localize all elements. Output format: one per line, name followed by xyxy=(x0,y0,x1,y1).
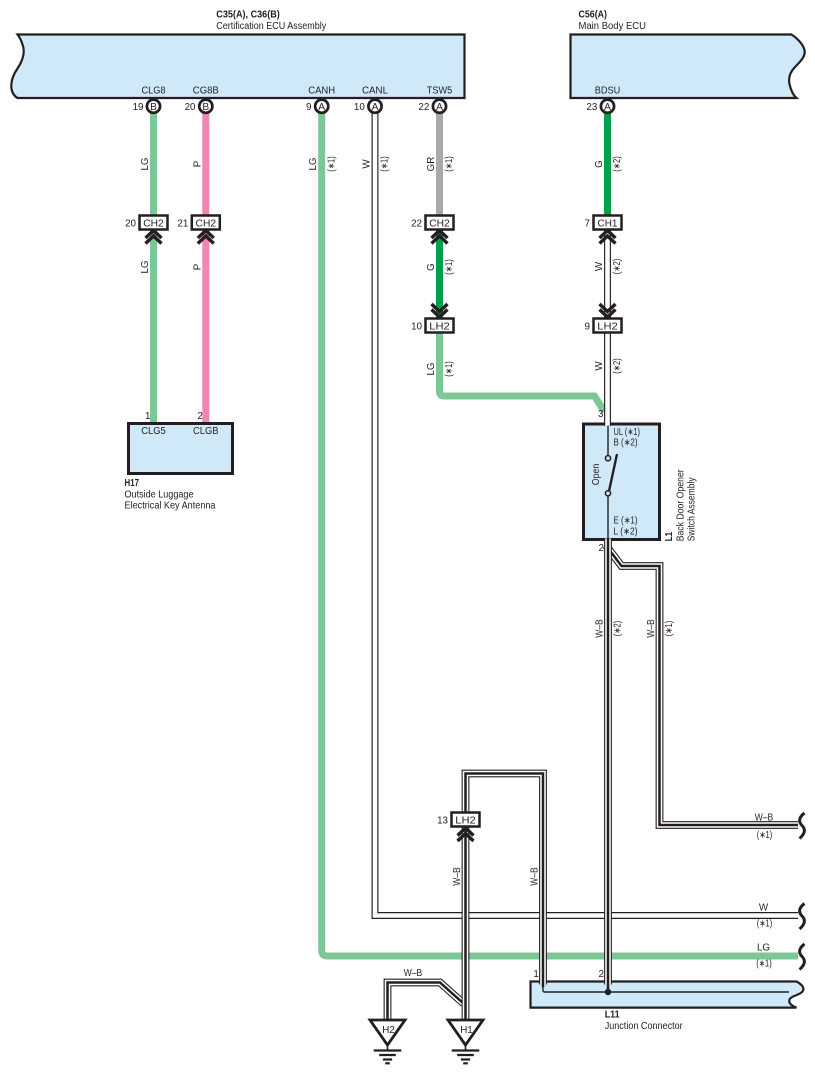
svg-text:CLGB: CLGB xyxy=(193,426,219,437)
break symbol W-B right edge xyxy=(800,813,805,839)
svg-text:(∗1): (∗1) xyxy=(444,156,455,172)
svg-text:(∗2): (∗2) xyxy=(612,358,623,374)
connector LH2 10 xyxy=(411,304,453,333)
svg-text:1: 1 xyxy=(145,411,150,422)
svg-text:9: 9 xyxy=(585,322,590,333)
svg-text:20: 20 xyxy=(185,102,196,113)
svg-text:LH2: LH2 xyxy=(429,321,450,332)
svg-text:(∗1): (∗1) xyxy=(756,959,772,970)
svg-text:13: 13 xyxy=(437,816,448,827)
svg-text:20: 20 xyxy=(125,219,136,230)
connector CH1 7 xyxy=(585,216,622,244)
ground H1 triangle xyxy=(448,1020,483,1063)
pin 23 circle A xyxy=(586,100,614,113)
wire W CANL (pin 10 to right edge) xyxy=(375,111,798,916)
break symbol W right edge xyxy=(800,904,805,930)
svg-text:A: A xyxy=(436,102,443,113)
svg-text:P: P xyxy=(192,263,203,270)
svg-text:UL (∗1): UL (∗1) xyxy=(614,427,641,438)
svg-text:(∗1): (∗1) xyxy=(380,156,391,172)
pin 10 circle A xyxy=(354,100,382,113)
svg-text:10: 10 xyxy=(354,102,365,113)
junction dot L11 pin 2 xyxy=(605,989,611,995)
svg-text:Main Body ECU: Main Body ECU xyxy=(579,21,647,32)
svg-text:CH2: CH2 xyxy=(196,218,217,229)
svg-text:W–B: W–B xyxy=(595,619,606,638)
ground H2 triangle xyxy=(370,1020,405,1063)
svg-text:W–B: W–B xyxy=(646,619,657,638)
svg-text:Back Door Opener: Back Door Opener xyxy=(676,469,687,542)
svg-text:3: 3 xyxy=(598,409,604,420)
svg-text:L11: L11 xyxy=(605,1010,621,1021)
pin 22 circle A xyxy=(418,100,446,113)
svg-text:LG: LG xyxy=(757,943,770,954)
connector LH2 13 xyxy=(437,813,479,842)
svg-text:L (∗2): L (∗2) xyxy=(614,527,638,538)
svg-text:H2: H2 xyxy=(382,1025,395,1036)
svg-text:LG: LG xyxy=(140,260,151,273)
svg-text:TSW5: TSW5 xyxy=(427,86,453,97)
wire inside L11 junction connector xyxy=(543,985,789,992)
wire lead inside L1 (switch to pin 2) xyxy=(607,496,609,539)
svg-text:Switch Assembly: Switch Assembly xyxy=(686,477,697,541)
connector CH2 21 xyxy=(177,216,219,244)
wire P CG8B (pin 20 to H17 pin 2) xyxy=(202,111,209,424)
wire W-B (H2 ground up and over to H1 wire) xyxy=(388,983,464,1021)
svg-text:1: 1 xyxy=(533,969,538,980)
svg-text:CANL: CANL xyxy=(362,86,389,97)
svg-text:(∗1): (∗1) xyxy=(757,830,773,841)
pin 20 circle B xyxy=(185,100,213,113)
ECU C56(A) bar xyxy=(571,35,805,99)
svg-text:LG: LG xyxy=(308,157,319,170)
svg-text:B: B xyxy=(202,102,209,113)
svg-text:B: B xyxy=(150,102,157,113)
svg-text:Junction Connector: Junction Connector xyxy=(605,1021,684,1032)
svg-text:W–B: W–B xyxy=(530,867,541,886)
svg-text:Outside Luggage: Outside Luggage xyxy=(125,489,195,500)
wire G (CH2 22 to LH2 10) xyxy=(436,227,443,320)
svg-text:CH1: CH1 xyxy=(598,218,618,229)
svg-text:(∗2): (∗2) xyxy=(612,156,623,172)
svg-text:21: 21 xyxy=(177,219,188,230)
svg-text:9: 9 xyxy=(306,102,311,113)
svg-text:(∗1): (∗1) xyxy=(444,361,455,377)
svg-text:LH2: LH2 xyxy=(455,815,476,826)
connector CH2 20 xyxy=(125,216,167,244)
L1 Back Door Opener Switch Assembly box xyxy=(584,424,660,540)
pin 9 circle A xyxy=(306,100,328,113)
svg-text:2: 2 xyxy=(197,411,202,422)
svg-text:L1: L1 xyxy=(664,531,675,541)
svg-text:BDSU: BDSU xyxy=(595,86,621,97)
svg-text:H17: H17 xyxy=(125,478,140,489)
svg-text:W: W xyxy=(362,159,373,169)
svg-text:10: 10 xyxy=(411,322,422,333)
svg-text:Certification ECU Assembly: Certification ECU Assembly xyxy=(216,21,326,32)
wire W-B (L1 pin 2 down to L11 pin 2) xyxy=(604,539,612,991)
wire W (CH1 7 to LH2 9) xyxy=(604,227,611,320)
svg-text:Electrical Key Antenna: Electrical Key Antenna xyxy=(125,500,217,511)
svg-text:W–B: W–B xyxy=(452,867,463,886)
wire G BDSU (pin 23 to CH1) xyxy=(604,111,611,218)
svg-text:LG: LG xyxy=(426,362,437,375)
svg-text:(∗1): (∗1) xyxy=(326,156,337,172)
svg-text:E (∗1): E (∗1) xyxy=(614,516,638,527)
svg-text:W: W xyxy=(594,261,605,271)
svg-text:22: 22 xyxy=(411,219,422,230)
svg-text:B (∗2): B (∗2) xyxy=(614,438,638,449)
svg-text:W: W xyxy=(594,361,605,371)
svg-text:(∗1): (∗1) xyxy=(757,919,773,930)
wire LG (LH2 10 to L1 pin 3) xyxy=(440,330,605,412)
svg-text:C35(A), C36(B): C35(A), C36(B) xyxy=(216,10,279,21)
svg-text:W–B: W–B xyxy=(755,813,774,824)
svg-text:A: A xyxy=(318,102,325,113)
connector CH2 22 xyxy=(411,216,453,244)
switch contact top xyxy=(605,456,610,461)
break symbol LG right edge xyxy=(800,944,805,970)
wire lead inside L1 (pin 3 to switch) xyxy=(607,426,609,456)
svg-text:(∗1): (∗1) xyxy=(444,259,455,275)
svg-text:CANH: CANH xyxy=(308,86,335,97)
svg-text:C56(A): C56(A) xyxy=(579,10,608,21)
svg-text:CLG5: CLG5 xyxy=(141,426,166,437)
svg-text:CG8B: CG8B xyxy=(193,86,219,97)
svg-text:CH2: CH2 xyxy=(143,218,164,229)
wire GR TSW5 (pin 22 to CH2) xyxy=(436,111,443,218)
connector LH2 9 xyxy=(585,304,622,333)
svg-text:LG: LG xyxy=(140,157,151,170)
svg-text:(∗2): (∗2) xyxy=(612,259,623,275)
svg-text:LH2: LH2 xyxy=(597,321,618,332)
svg-text:(∗2): (∗2) xyxy=(613,621,624,637)
svg-text:A: A xyxy=(372,102,379,113)
wire W (LH2 9 to L1 pin 3) xyxy=(604,330,611,426)
switch contact bottom xyxy=(605,491,610,496)
svg-text:GR: GR xyxy=(426,157,437,172)
svg-text:P: P xyxy=(192,160,203,167)
svg-text:Open: Open xyxy=(591,464,602,486)
svg-text:G: G xyxy=(594,160,605,168)
H17 Outside Luggage Electrical Key Antenna box xyxy=(129,424,233,474)
wire W-B branch (L1 pin 2 diagonal to right edge, *1) xyxy=(606,546,798,826)
wire W-B (H1 ground up through LH2 13, over and down to L11 pin 1) xyxy=(466,774,544,1021)
wire LG CANH (pin 9 to right edge) xyxy=(322,111,798,956)
svg-text:23: 23 xyxy=(586,102,597,113)
svg-text:W–B: W–B xyxy=(404,968,423,979)
svg-text:G: G xyxy=(426,263,437,271)
svg-text:CH2: CH2 xyxy=(429,218,450,229)
svg-text:19: 19 xyxy=(133,102,144,113)
pin 19 circle B xyxy=(133,100,161,113)
svg-text:2: 2 xyxy=(599,543,604,554)
svg-text:W: W xyxy=(759,903,769,914)
svg-text:H1: H1 xyxy=(460,1025,473,1036)
ECU C35(A)/C36(B) bar xyxy=(11,35,464,99)
svg-text:22: 22 xyxy=(418,102,429,113)
L11 Junction Connector bar xyxy=(531,982,804,1008)
svg-text:7: 7 xyxy=(585,219,590,230)
svg-text:CLG8: CLG8 xyxy=(142,86,167,97)
svg-text:2: 2 xyxy=(599,969,604,980)
svg-text:A: A xyxy=(604,102,611,113)
svg-text:(∗1): (∗1) xyxy=(664,621,675,637)
wire LG CLG8 (pin 19 to H17 pin 1) xyxy=(150,111,157,424)
switch blade (Open) xyxy=(609,455,617,490)
